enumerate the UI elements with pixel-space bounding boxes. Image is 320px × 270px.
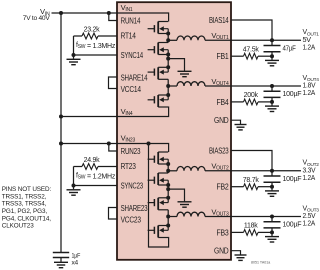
svg-text:x4: x4 — [72, 260, 79, 267]
svg-text:1.2A: 1.2A — [303, 221, 316, 228]
svg-text:SHARE14: SHARE14 — [121, 73, 148, 82]
svg-text:FB1: FB1 — [217, 52, 230, 61]
svg-text:100µF: 100µF — [283, 222, 302, 229]
svg-text:3.3V: 3.3V — [303, 167, 316, 174]
svg-text:2.5V: 2.5V — [303, 213, 316, 220]
svg-text:200k: 200k — [244, 92, 259, 99]
svg-text:TRSS1, TRSS2,: TRSS1, TRSS2, — [2, 193, 47, 200]
svg-text:BIAS23: BIAS23 — [209, 146, 229, 155]
svg-text:TRSS3, TRSS4,: TRSS3, TRSS4, — [2, 201, 47, 208]
svg-text:PINS NOT USED:: PINS NOT USED: — [2, 186, 52, 193]
svg-text:RUN23: RUN23 — [121, 147, 141, 156]
svg-text:5V: 5V — [303, 37, 312, 44]
svg-text:PG4, CLKOUT14,: PG4, CLKOUT14, — [2, 215, 51, 222]
svg-text:FB4: FB4 — [217, 98, 230, 107]
svg-text:100µF: 100µF — [283, 91, 302, 98]
svg-text:GND: GND — [214, 116, 229, 125]
svg-text:1.2A: 1.2A — [303, 90, 316, 97]
svg-text:RT14: RT14 — [121, 31, 137, 40]
svg-text:RUN14: RUN14 — [121, 16, 141, 25]
svg-text:RT23: RT23 — [121, 162, 137, 171]
svg-text:1µF: 1µF — [72, 252, 81, 259]
svg-text:1.2A: 1.2A — [303, 44, 316, 51]
svg-text:100µF: 100µF — [283, 176, 302, 183]
svg-text:24.9k: 24.9k — [84, 157, 101, 164]
svg-text:BIAS14: BIAS14 — [209, 16, 229, 25]
svg-text:8051 TA01a: 8051 TA01a — [251, 260, 270, 264]
svg-text:CLKOUT23: CLKOUT23 — [2, 223, 34, 230]
svg-text:PG1, PG2, PG3,: PG1, PG2, PG3, — [2, 208, 48, 215]
svg-text:47µF: 47µF — [283, 45, 296, 52]
svg-text:GND: GND — [214, 247, 229, 256]
svg-text:SYNC14: SYNC14 — [121, 51, 144, 60]
svg-text:FB3: FB3 — [217, 228, 230, 237]
svg-text:23.2k: 23.2k — [84, 26, 101, 33]
svg-text:1.2A: 1.2A — [303, 175, 316, 182]
svg-text:FB2: FB2 — [217, 183, 230, 192]
svg-text:SHARE23: SHARE23 — [121, 204, 148, 213]
svg-text:VCC23: VCC23 — [121, 215, 142, 224]
svg-text:1.8V: 1.8V — [303, 83, 316, 90]
svg-text:7V to 40V: 7V to 40V — [23, 15, 51, 22]
svg-text:47.5k: 47.5k — [243, 46, 260, 53]
svg-text:VCC14: VCC14 — [121, 85, 142, 94]
svg-text:SYNC23: SYNC23 — [121, 181, 144, 190]
svg-text:118k: 118k — [244, 223, 258, 230]
svg-text:78.7k: 78.7k — [243, 177, 260, 184]
